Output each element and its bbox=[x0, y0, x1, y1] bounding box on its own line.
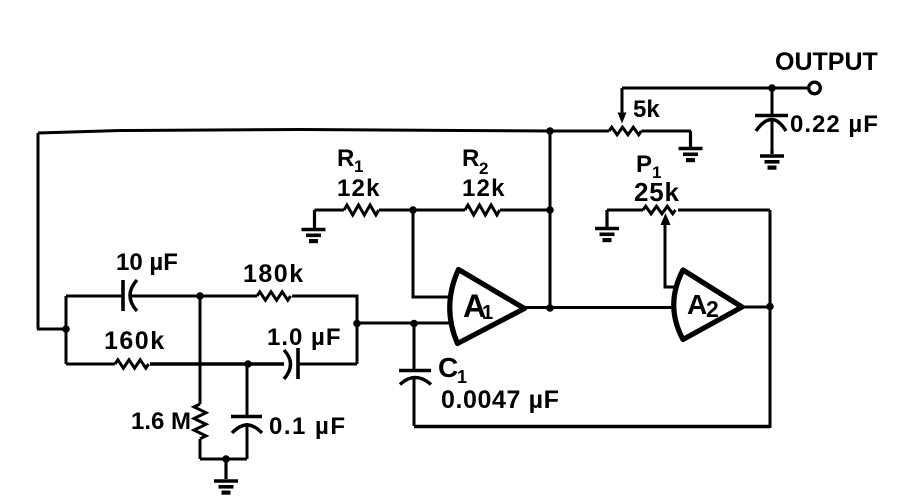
capacitor 0.22uF bbox=[755, 88, 788, 152]
capacitor 1.0uF bbox=[284, 348, 357, 379]
svg-text:12k: 12k bbox=[337, 175, 381, 202]
wire: ground bus under 1.6M and 0.1uF bbox=[200, 458, 247, 461]
svg-text:10 µF: 10 µF bbox=[116, 249, 178, 276]
resistor 180k bbox=[200, 292, 357, 300]
svg-text:0.0047 µF: 0.0047 µF bbox=[441, 386, 560, 414]
wire: left feedback vertical bbox=[37, 133, 40, 329]
ground: right end of 5k bbox=[679, 131, 703, 160]
svg-text:R: R bbox=[337, 145, 354, 172]
svg-text:180k: 180k bbox=[243, 260, 305, 288]
svg-text:2: 2 bbox=[706, 296, 719, 322]
capacitor 10uF bbox=[66, 280, 200, 311]
svg-text:12k: 12k bbox=[462, 175, 506, 202]
node: A2 output junction bbox=[766, 303, 774, 311]
svg-text:160k: 160k bbox=[104, 327, 166, 355]
ground: left end of P1 bbox=[595, 210, 619, 240]
wire: trunk vertical (A1 output to top wire) bbox=[549, 131, 552, 308]
capacitor C1 bbox=[399, 324, 431, 427]
svg-text:0.1 µF: 0.1 µF bbox=[269, 413, 347, 440]
RC network: right edge vertical bbox=[356, 295, 359, 365]
wire: RC network output to A1 input bbox=[357, 322, 453, 325]
svg-text:1: 1 bbox=[482, 302, 493, 324]
op-amp A1 bbox=[450, 270, 525, 344]
svg-text:25k: 25k bbox=[634, 177, 680, 207]
ground: bottom center bbox=[214, 459, 238, 493]
resistor R1 12k bbox=[315, 205, 414, 215]
wire: R1/R2 junction down to A1 inverting input bbox=[413, 210, 452, 297]
node: C1 top junction bbox=[410, 320, 418, 328]
resistor 1.6M bbox=[194, 404, 206, 459]
node: A1 output / trunk bbox=[546, 304, 554, 312]
op-amp A2 bbox=[674, 270, 742, 340]
wire: bottom feedback from C1 to A2 output vertical bbox=[414, 425, 770, 428]
wire: middle vertical (10uF/180k junction to 1.6M) bbox=[199, 296, 202, 404]
svg-text:P: P bbox=[636, 151, 652, 178]
svg-text:A: A bbox=[687, 289, 707, 320]
ground: under 0.22uF bbox=[760, 150, 784, 168]
resistor R2 12k bbox=[413, 205, 550, 215]
svg-text:5k: 5k bbox=[633, 96, 660, 123]
wire: right vertical P1 to bottom feedback bbox=[769, 210, 772, 428]
node: 0.1uF tap bbox=[244, 360, 252, 368]
wire: stub from left vertical to RC network bbox=[37, 328, 67, 331]
svg-text:R: R bbox=[462, 145, 479, 172]
node: junction top wire / trunk / 5k bbox=[546, 127, 554, 135]
wire: A1 output to A2 input bbox=[524, 306, 683, 309]
node: left edge tap bbox=[62, 325, 70, 333]
ground: left of R1 bbox=[302, 210, 326, 241]
potentiometer P1 wiper arrow bbox=[661, 213, 677, 287]
node: ground bus junction bbox=[222, 455, 230, 463]
potentiometer 5k track bbox=[550, 127, 691, 135]
node: R2 / trunk junction bbox=[546, 206, 554, 214]
svg-text:C: C bbox=[438, 352, 458, 383]
svg-text:1.0 µF: 1.0 µF bbox=[267, 324, 342, 351]
wire: output line from 5k wiper bbox=[622, 87, 807, 90]
wire: A2 output bbox=[742, 306, 770, 309]
svg-text:1: 1 bbox=[354, 157, 363, 176]
wire: top feedback horizontal bbox=[38, 130, 550, 134]
potentiometer P1 25k track bbox=[607, 206, 770, 214]
svg-text:1: 1 bbox=[457, 367, 467, 387]
terminal: OUTPUT bbox=[809, 82, 821, 94]
resistor 160k bbox=[66, 360, 284, 368]
potentiometer 5k wiper arrow bbox=[618, 88, 627, 124]
svg-text:0.22 µF: 0.22 µF bbox=[790, 111, 879, 138]
node: R1/R2 junction bbox=[409, 206, 417, 214]
capacitor 0.1uF bbox=[231, 364, 262, 459]
node: 10uF/180k junction bbox=[196, 292, 204, 300]
RC network: left edge vertical bbox=[65, 296, 68, 364]
svg-text:OUTPUT: OUTPUT bbox=[775, 48, 878, 76]
node: RC output tap bbox=[353, 320, 361, 328]
node: output / 0.22uF junction bbox=[768, 84, 776, 92]
svg-text:1.6 M: 1.6 M bbox=[131, 408, 191, 435]
